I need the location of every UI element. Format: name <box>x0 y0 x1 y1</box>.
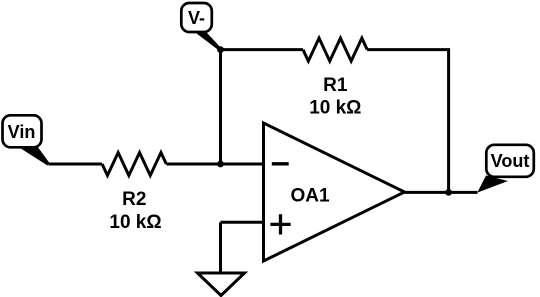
node V- junction dot (top) <box>217 46 224 53</box>
resistor R1 <box>303 38 367 61</box>
wire R2 to op-amp inverting input <box>166 163 263 166</box>
op-amp inverting input minus sign <box>272 162 289 165</box>
svg-text:Vin: Vin <box>8 122 36 142</box>
value 10 kOhm (R1) <box>309 98 361 119</box>
wire R1 to output node <box>367 50 448 193</box>
value 10 kOhm (R2) <box>109 212 161 233</box>
label OA1 <box>290 186 330 207</box>
net flag V- tail <box>193 31 222 51</box>
label R1 <box>323 75 348 96</box>
wire V- vertical <box>219 50 222 164</box>
wire ground riser <box>219 222 222 273</box>
net flag V- box <box>181 3 212 32</box>
svg-text:Vout: Vout <box>491 151 530 171</box>
label R2 <box>122 189 146 210</box>
resistor R2 <box>102 153 166 176</box>
wire non-inverting input <box>221 221 264 224</box>
svg-text:OA1: OA1 <box>290 186 330 207</box>
op-amp non-inverting input plus sign <box>270 214 290 234</box>
node V- junction dot (lower) <box>217 161 224 168</box>
ground <box>198 273 245 296</box>
node output junction dot <box>445 189 452 196</box>
svg-text:R2: R2 <box>122 189 146 210</box>
svg-text:10 kΩ: 10 kΩ <box>309 98 361 119</box>
op-amp OA1 body <box>264 123 405 261</box>
wire op-amp output <box>405 191 478 194</box>
svg-text:R1: R1 <box>323 75 348 96</box>
net flag Vout box <box>486 145 534 177</box>
wire top node to R1 <box>221 48 304 51</box>
wire Vin to R2 <box>49 163 103 166</box>
net flag Vin tail <box>19 147 50 166</box>
svg-text:10 kΩ: 10 kΩ <box>109 212 161 233</box>
svg-text:V-: V- <box>188 8 205 28</box>
net flag Vout tail <box>477 176 508 193</box>
net flag Vin box <box>3 115 42 147</box>
